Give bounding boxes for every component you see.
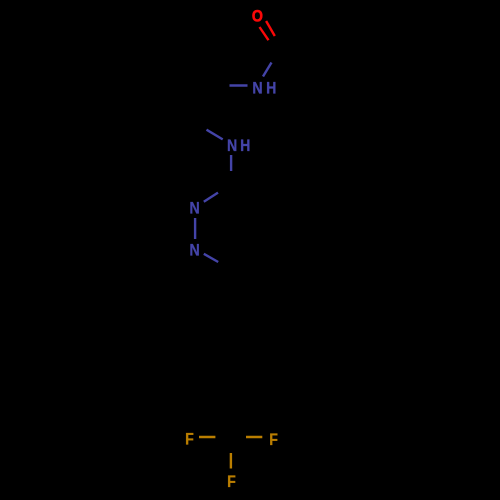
atom F bottom (trifluoromethyl fluorine label): [227, 473, 236, 491]
atom N (secondary amine NH label, letter N): [227, 137, 237, 155]
svg-text:N: N: [190, 241, 200, 259]
bond N2 to ring C6 (blue half, diagonal): [204, 254, 218, 262]
bond N1-N2 (pyridazine ring, vertical blue): [194, 218, 196, 239]
bond amide N to carbonyl C (blue half): [263, 63, 272, 77]
atom N (amide NH label, letter N): [252, 79, 262, 97]
svg-text:O: O: [252, 7, 263, 25]
bond chain C to secondary amine N (blue half, diagonal): [207, 130, 223, 140]
svg-text:H: H: [266, 79, 276, 97]
svg-text:F: F: [269, 431, 278, 449]
atom F right (trifluoromethyl fluorine label): [269, 431, 278, 449]
bond amine N to pyridazine C3 (blue half, vertical): [230, 155, 232, 171]
atom N2 (pyridazine ring nitrogen label): [190, 241, 200, 259]
svg-text:N: N: [252, 79, 262, 97]
svg-text:N: N: [227, 137, 237, 155]
atom O (carbonyl oxygen label): [252, 7, 263, 25]
svg-text:F: F: [185, 431, 194, 449]
atom N1 (pyridazine ring nitrogen label): [190, 199, 200, 217]
bond pyridazine N1 to C3 (blue half, diagonal): [204, 193, 218, 202]
svg-text:N: N: [190, 199, 200, 217]
bond CF3 carbon to left F (orange half): [199, 436, 215, 438]
atom H (secondary amine NH label, letter H): [240, 137, 250, 155]
bond C=O double bond line 2 (lower red half): [260, 27, 269, 40]
svg-text:F: F: [227, 473, 236, 491]
bond CF3 carbon to right F (orange half): [246, 436, 262, 438]
svg-text:H: H: [240, 137, 250, 155]
bond C=O double bond line 1 (upper red half): [266, 21, 275, 36]
bond CH2 to amide N (blue half, horizontal): [230, 84, 248, 86]
bond CF3 carbon to bottom F (orange half, vertical): [230, 453, 232, 469]
atom H (amide NH label, letter H): [266, 79, 276, 97]
atom F left (trifluoromethyl fluorine label): [185, 431, 194, 449]
